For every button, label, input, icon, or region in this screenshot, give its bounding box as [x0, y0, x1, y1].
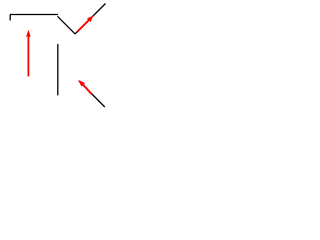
wire B1 top horizontal line: [10, 14, 58, 16]
arrow R2 red diagonal up-right: [78, 15, 94, 31]
arrow R3 red diagonal up-left: [78, 80, 91, 94]
wire V1 vertical mid line: [57, 44, 59, 96]
arrow R1 red vertical up: [26, 30, 31, 77]
wire B2 left end tick: [9, 15, 11, 21]
wire DiagB diagonal down-right to bottom corner (under red arrow R3): [79, 81, 105, 107]
wire D1 diagonal down-right from line end: [58, 16, 76, 34]
wire DiagA diagonal up-right to top corner (under red arrow R2): [75, 4, 105, 34]
